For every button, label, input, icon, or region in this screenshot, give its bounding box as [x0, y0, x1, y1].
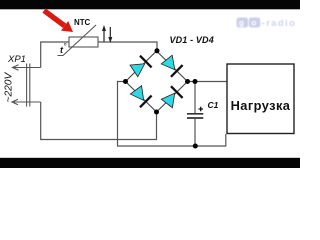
top letterbox bar [0, 0, 300, 9]
node: capacitor tap junction [193, 79, 198, 84]
diode VD2 (top-right, anode top node, cathode right node) [160, 54, 183, 77]
bottom letterbox bar [0, 158, 300, 168]
wire: top AC wire from plug pin XP1 up and right to bridge top node [41, 42, 157, 68]
svg-text:-radio: -radio [262, 18, 297, 29]
wire: AC return from plug bottom pin down, right, up to bridge bottom node [41, 102, 157, 140]
diode VD3 (bottom-left, anode left node, cathode bottom node) [128, 84, 151, 107]
svg-text:XP1: XP1 [7, 54, 26, 65]
annotation arrow up [103, 29, 105, 42]
wire: capacitor branch down from DC plus [194, 82, 196, 114]
node: capacitor bottom junction [193, 144, 198, 149]
capacitor C1 plates [187, 113, 203, 115]
node: bridge left junction [123, 79, 128, 84]
bridge edge top-left [126, 51, 157, 82]
svg-text:Нагрузка: Нагрузка [231, 98, 291, 113]
connector XP1 mating double line [26, 64, 28, 107]
load box [227, 64, 294, 134]
svg-text:~220V: ~220V [3, 72, 14, 103]
node: bridge top junction [155, 48, 160, 53]
thermistor strike line with foot [58, 25, 97, 56]
bridge edge bottom-left [126, 82, 157, 113]
svg-text:NTC: NTC [74, 18, 91, 27]
red callout arrow [44, 11, 65, 26]
svg-text:VD1 - VD4: VD1 - VD4 [170, 35, 214, 45]
connector XP1 top pin [13, 67, 41, 69]
svg-text:°: ° [64, 42, 67, 51]
svg-text:o: o [251, 19, 256, 28]
node: bridge right junction [185, 79, 190, 84]
svg-text:g: g [239, 19, 244, 28]
diode VD1 (top-left, anode left node, cathode top node) [128, 55, 151, 78]
plus sign of C1 [199, 107, 204, 111]
bridge edge bottom-right [157, 82, 188, 113]
bridge edge top-right [157, 51, 188, 82]
thermistor NTC body [69, 37, 98, 47]
connector XP1 bottom pin [13, 101, 41, 103]
diode VD4 (bottom-right, anode bottom node, cathode right node) [159, 86, 182, 109]
node: bridge bottom junction [154, 110, 159, 115]
wire: DC minus from bridge left node, down and right to load bottom [118, 82, 226, 147]
annotation arrow down [109, 27, 111, 39]
svg-text:C1: C1 [208, 100, 219, 110]
wire: DC plus from bridge right node to load box [188, 81, 228, 83]
watermark go-radio logo [237, 18, 297, 30]
